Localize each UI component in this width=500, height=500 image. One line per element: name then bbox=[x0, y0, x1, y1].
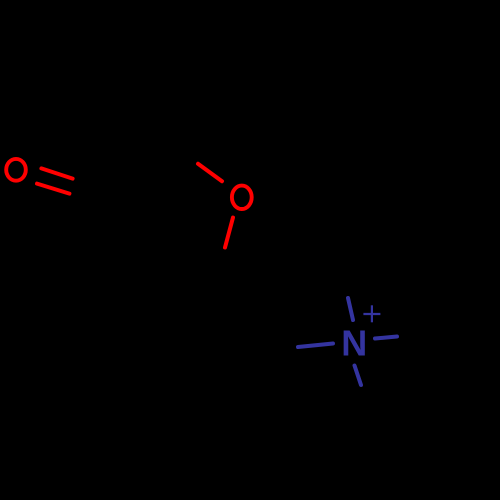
double bond C=O upper line bbox=[41, 168, 72, 178]
bond N-CH3 up (blue half) bbox=[348, 298, 353, 320]
bond N-CH2 left (blue half) bbox=[298, 344, 333, 348]
plus charge sign horizontal bar bbox=[363, 313, 380, 315]
bond N-CH3 down (blue half) bbox=[355, 366, 362, 386]
plus charge sign vertical bar bbox=[371, 305, 373, 322]
ring oxygen O (atom label) bbox=[232, 186, 252, 209]
carbonyl oxygen O (atom label) bbox=[6, 159, 26, 181]
bond CH2-O (red half, upper left of ring O) bbox=[198, 164, 222, 181]
svg-text:N: N bbox=[341, 323, 367, 364]
bond N-CH3 right (blue half) bbox=[375, 337, 397, 339]
bond O-C5 (red half, below ring O) bbox=[225, 218, 233, 248]
double bond C=O lower line bbox=[37, 184, 69, 194]
